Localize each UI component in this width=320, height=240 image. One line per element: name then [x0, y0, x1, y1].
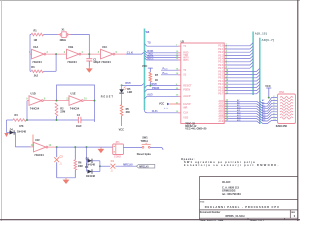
resistor R4 [13, 114, 26, 128]
svg-text:CLK: CLK [183, 112, 188, 115]
wire RST row [145, 86, 181, 88]
svg-text:1N4148: 1N4148 [86, 174, 96, 178]
svg-text:RPRPL_01.SCH: RPRPL_01.SCH [226, 214, 245, 218]
svg-text:180pF: 180pF [93, 61, 101, 64]
resistor R1 [31, 30, 43, 43]
svg-text:JP1: JP1 [115, 141, 120, 144]
svg-text:OLED: OLED [222, 180, 231, 184]
wire R5 down [121, 116, 123, 126]
U3 pin stubs [178, 46, 227, 121]
svg-text:Sheet 1 of 1: Sheet 1 of 1 [250, 218, 265, 221]
diode D3 [87, 169, 92, 173]
wire D4 cathode down to U1F [15, 133, 31, 147]
wire top segment B [44, 34, 58, 36]
svg-text:LED: LED [127, 91, 132, 94]
svg-text:U1F: U1F [35, 138, 40, 142]
wires P0 to bus AD [225, 68, 260, 94]
wire U1A input stub [30, 53, 32, 55]
wire U1D left vertical [26, 101, 28, 120]
diode D2 [86, 160, 89, 162]
resistor network RN1 [276, 91, 296, 128]
svg-text:REKLAMNI PANEL - PROCESSOR CPU: REKLAMNI PANEL - PROCESSOR CPU [205, 205, 280, 209]
wire bottom feedback right [44, 70, 57, 72]
svg-text:CLK: CLK [127, 50, 133, 54]
svg-text:Date: April 21, 1994: Date: April 21, 1994 [200, 218, 224, 221]
svg-text:PSEN\: PSEN\ [152, 87, 160, 90]
junction U1B out node [88, 53, 90, 55]
wires A8..A15 bus to RN1 [225, 96, 278, 123]
svg-text:74HC04: 74HC04 [70, 107, 80, 111]
svg-text:GRMGODS: GRMGODS [222, 188, 236, 192]
inverter U1E [66, 92, 87, 111]
capacitor C4 [111, 164, 116, 169]
svg-text:1K: 1K [155, 79, 158, 82]
wire ALE [145, 96, 181, 98]
svg-text:MRCLK\: MRCLK\ [139, 166, 149, 169]
LED D5 [119, 85, 132, 101]
svg-text:A15: A15 [262, 119, 265, 122]
svg-text:ALE\: ALE\ [147, 94, 153, 97]
svg-text:«. «.: «. «. [164, 108, 169, 110]
svg-text:tel.: 061/791084: tel.: 061/791084 [222, 192, 241, 196]
wire RST to bus [122, 83, 145, 85]
svg-text:74HC04: 74HC04 [101, 60, 111, 64]
svg-text:74HC04: 74HC04 [30, 107, 40, 111]
wire CLK to CPU [145, 110, 181, 113]
wire LED to R5 [121, 101, 123, 105]
wire T1 [145, 44, 181, 46]
wire bottom feedback left [30, 70, 31, 72]
svg-text:74HC04: 74HC04 [67, 60, 77, 64]
title block frame [200, 176, 298, 219]
diode D4 [6, 120, 8, 133]
resistor R5 [120, 105, 130, 116]
svg-text:ALE: ALE [218, 120, 223, 123]
svg-text:RST\: RST\ [152, 83, 158, 86]
svg-text:INT1\: INT1\ [147, 57, 153, 60]
wire feedback vertical [55, 54, 57, 71]
svg-text:U1D: U1D [31, 92, 36, 96]
wire U1D out to U1E in [43, 100, 69, 102]
svg-text:22M: 22M [60, 111, 65, 114]
wire mid bottom rail [7, 119, 14, 121]
junction R6 [74, 146, 76, 148]
svg-text:47K: 47K [19, 125, 24, 128]
svg-text:RST\: RST\ [125, 82, 131, 85]
svg-text:ALE/P: ALE/P [183, 95, 191, 98]
svg-text:EA/VP: EA/VP [183, 103, 191, 106]
power arrow below wire [98, 147, 105, 153]
page border right [297, 0, 299, 221]
svg-text:D3: D3 [85, 165, 89, 169]
junction rail U1D [26, 119, 28, 121]
bus AD[0..7] vertical [259, 38, 261, 124]
ground below C1 [86, 67, 93, 73]
svg-text:D2: D2 [86, 156, 90, 160]
svg-text:1M: 1M [34, 39, 37, 42]
svg-text:VSS: VSS [183, 117, 188, 120]
wire diode cathode vertical [92, 161, 100, 172]
svg-text:T1\: T1\ [147, 41, 151, 44]
wire C4 to flag [115, 165, 136, 167]
svg-text:62E8-05K: 62E8-05K [276, 124, 288, 128]
resistor R3 [31, 66, 43, 77]
ground bottom left [63, 178, 70, 184]
wire oscillator left vertical [29, 35, 31, 72]
wire X1 stub [161, 74, 181, 76]
wire rail right [81, 119, 95, 121]
svg-text:konektorja sa senzorji port RM: konektorja sa senzorji port RMWORK. [184, 163, 280, 167]
inverter U1B [64, 45, 84, 64]
wire to C4 [100, 165, 111, 167]
svg-text:U1C: U1C [102, 45, 107, 49]
bus center vertical [144, 29, 146, 111]
svg-text:WR: WR [183, 107, 187, 110]
svg-text:CLK\: CLK\ [152, 110, 158, 113]
power arrow below D4 wire [4, 133, 8, 137]
wire rail mid [26, 119, 78, 121]
VCC arrow EA pin [159, 102, 181, 106]
wire U1C out / CLK [115, 53, 126, 55]
svg-text:INT1: INT1 [183, 59, 189, 62]
resistor R6 [74, 147, 83, 178]
wire U1A out to U1B in [46, 53, 67, 55]
page border bottom [0, 219, 300, 221]
U3 right pin names [218, 45, 224, 123]
switch SW1 [124, 137, 164, 151]
U3 left pin numbers [176, 44, 179, 113]
capacitor C2 [76, 114, 82, 128]
connector JP1 CON2 [113, 141, 124, 158]
resistor R7 [149, 72, 159, 85]
svg-text:CON2: CON2 [114, 156, 122, 159]
crystal X1 [58, 28, 71, 42]
page border left [1, 0, 3, 221]
offpage flag LATCH [136, 164, 154, 168]
junction U1D out [56, 100, 58, 102]
svg-text:VCC=40; GND=20: VCC=40; GND=20 [185, 127, 207, 131]
junction RST LED [121, 84, 123, 86]
junction C3 [56, 146, 58, 148]
svg-text:VCC: VCC [265, 84, 271, 88]
wire U1F out rail [48, 146, 57, 148]
svg-text:74HC04: 74HC04 [34, 153, 44, 157]
wire TXD [145, 53, 181, 55]
wire U1D input [27, 100, 29, 102]
svg-text:1N4148: 1N4148 [17, 129, 27, 133]
svg-text:U1B: U1B [68, 45, 73, 49]
junction diodes [86, 146, 88, 148]
svg-text:Reset tipka: Reset tipka [137, 152, 151, 156]
svg-text:TIPKA: TIPKA [141, 140, 149, 143]
IC U3 processor [181, 43, 224, 124]
svg-text:MRCLK\: MRCLK\ [123, 163, 133, 166]
svg-text:RN1: RN1 [279, 91, 285, 94]
svg-text:2k2: 2k2 [34, 74, 39, 77]
wire RXD [145, 51, 181, 53]
svg-text:VCC: VCC [159, 102, 165, 106]
capacitor C3 [54, 147, 63, 178]
svg-text:74HC04: 74HC04 [32, 60, 42, 64]
wire top segment C [71, 35, 90, 55]
inverter U1F [31, 138, 52, 157]
wire X2 stub [161, 69, 181, 71]
wire oscillator top segment A [30, 34, 31, 36]
junction U1A out [55, 53, 57, 55]
resistor R2 [55, 103, 65, 120]
svg-text:U1A: U1A [33, 45, 38, 49]
svg-text:A15: A15 [237, 119, 240, 122]
svg-text:4MHz: 4MHz [60, 39, 67, 42]
svg-text:PSEN: PSEN [183, 89, 190, 92]
junction U1E out [94, 100, 96, 102]
inverter U1A [29, 45, 49, 64]
svg-text:330: 330 [126, 111, 131, 114]
wire INT1 [145, 58, 181, 60]
U3 left pin names [183, 45, 192, 120]
inverter U1C [98, 45, 118, 64]
svg-text:RESET: RESET [101, 95, 114, 98]
capacitor C1 [86, 54, 101, 67]
svg-text:U1E: U1E [71, 92, 76, 96]
page border top [0, 0, 300, 2]
svg-text:AD[0..7]: AD[0..7] [262, 38, 275, 42]
wire red stub above U1F input [32, 135, 34, 147]
wire mid top [57, 85, 95, 122]
junction rail R2 [56, 119, 58, 121]
svg-text:P».»: P».» [163, 68, 169, 71]
VCC symbol R7 [142, 64, 153, 72]
wire INT0 [145, 55, 181, 57]
svg-text:10M: 10M [78, 165, 83, 168]
wire PSEN [145, 90, 181, 92]
wire bottom gnd rail [57, 177, 76, 179]
svg-text:VCC: VCC [142, 64, 148, 68]
svg-text:Document Number: Document Number [200, 211, 221, 214]
svg-text:10nF: 10nF [76, 125, 82, 128]
bus A[8..15] vertical [252, 32, 254, 96]
wires P1 to bus A [225, 43, 253, 69]
wire U1B out to U1C in [81, 53, 101, 55]
svg-text:P».»: P».» [163, 72, 169, 75]
VCC at RN1 [265, 84, 271, 99]
svg-text:U3: U3 [181, 40, 185, 44]
svg-text:VCC: VCC [119, 128, 125, 132]
svg-text:RESET: RESET [183, 84, 192, 87]
svg-text:A[8..15]: A[8..15] [255, 32, 267, 36]
wire D4 anode [7, 132, 10, 134]
svg-text:P0.7: P0.7 [218, 93, 224, 96]
junction C4 wire [99, 165, 101, 167]
inverter U1D [26, 92, 46, 111]
wire diode anode vertical [86, 147, 88, 171]
wire U1E out [84, 100, 95, 102]
